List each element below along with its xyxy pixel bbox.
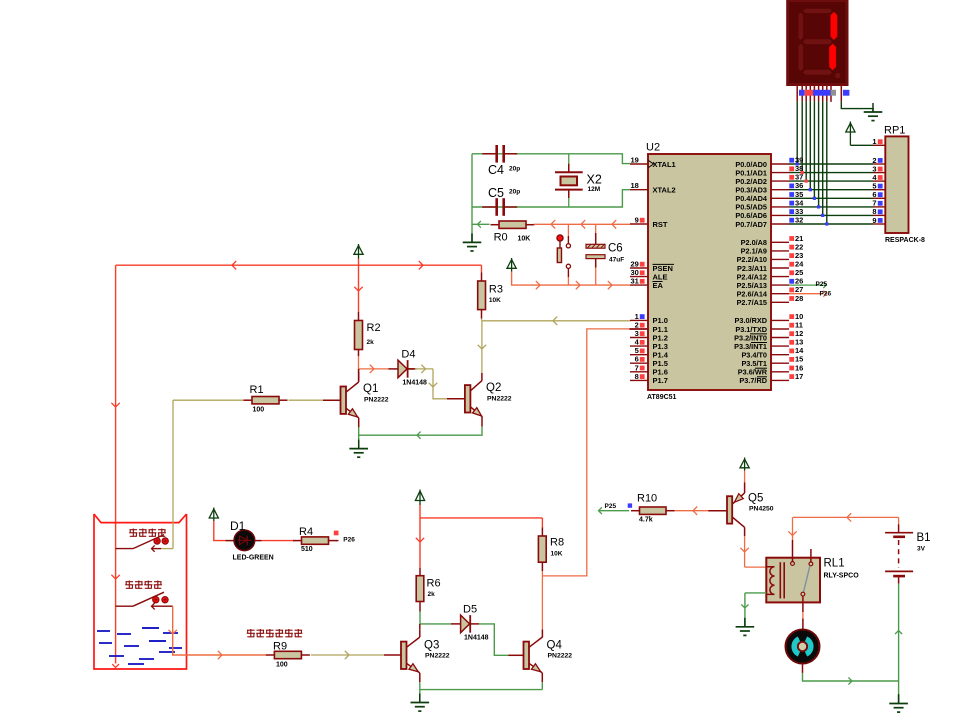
svg-text:U2: U2 [646,142,660,154]
svg-text:R9: R9 [273,641,287,653]
svg-text:R10: R10 [637,493,657,505]
svg-text:PN4250: PN4250 [749,506,774,513]
svg-text:P0.7/AD7: P0.7/AD7 [735,220,767,229]
svg-text:XTAL1: XTAL1 [653,160,676,169]
svg-text:28: 28 [795,294,803,303]
svg-text:P2.7/A15: P2.7/A15 [737,298,767,307]
svg-text:XTAL2: XTAL2 [653,186,676,195]
svg-text:B1: B1 [917,532,931,544]
svg-text:R4: R4 [299,526,313,538]
svg-text:R8: R8 [550,537,564,549]
svg-text:RST: RST [653,220,668,229]
svg-text:Q4: Q4 [547,640,563,652]
svg-text:C6: C6 [608,243,623,255]
svg-text:PN2222: PN2222 [425,653,450,660]
svg-text:Q1: Q1 [363,383,378,395]
svg-text:P25: P25 [605,503,617,510]
svg-text:17: 17 [795,372,803,381]
svg-text:9: 9 [635,216,639,225]
svg-text:10K: 10K [518,235,531,242]
svg-text:8: 8 [635,372,639,381]
svg-text:R6: R6 [427,578,441,590]
svg-text:R2: R2 [367,322,381,334]
svg-text:20p: 20p [509,189,520,196]
svg-text:RL1: RL1 [824,558,845,570]
svg-text:P3.7/RD: P3.7/RD [739,376,767,385]
svg-text:Q2: Q2 [486,382,501,394]
svg-text:R1: R1 [250,384,264,396]
svg-text:20p: 20p [509,166,520,173]
svg-text:C5: C5 [488,186,504,200]
svg-text:RP1: RP1 [884,125,905,137]
svg-text:1N4148: 1N4148 [464,634,489,641]
svg-text:R3: R3 [489,284,503,296]
svg-text:31: 31 [630,277,638,286]
svg-text:19: 19 [630,156,638,165]
svg-text:2k: 2k [428,591,436,598]
svg-text:10K: 10K [489,297,501,304]
svg-text:32: 32 [795,216,803,225]
svg-text:P1.7: P1.7 [653,376,668,385]
svg-text:100: 100 [253,407,265,414]
svg-text:D4: D4 [401,348,415,360]
svg-text:1N4148: 1N4148 [402,379,427,386]
svg-text:PN2222: PN2222 [364,397,389,404]
svg-text:10K: 10K [551,551,563,558]
svg-text:47uF: 47uF [609,257,624,264]
svg-text:C4: C4 [488,163,504,177]
svg-text:P26: P26 [343,537,355,544]
svg-text:RLY-SPCO: RLY-SPCO [824,573,860,580]
svg-text:4.7k: 4.7k [639,517,653,524]
svg-text:PN2222: PN2222 [487,396,512,403]
svg-text:510: 510 [301,546,313,553]
svg-text:1: 1 [872,137,876,146]
svg-text:LED-GREEN: LED-GREEN [233,555,274,562]
svg-text:RESPACK-8: RESPACK-8 [885,237,925,244]
svg-text:X2: X2 [587,173,602,187]
svg-text:100: 100 [276,662,288,669]
svg-text:EA: EA [653,281,664,290]
svg-text:Q3: Q3 [424,640,439,652]
svg-text:9: 9 [872,216,876,225]
svg-text:Q5: Q5 [748,493,763,505]
svg-text:2k: 2k [367,339,375,346]
svg-text:AT89C51: AT89C51 [647,394,677,401]
svg-text:P26: P26 [820,290,832,297]
svg-text:3V: 3V [917,546,926,553]
svg-text:D5: D5 [463,603,477,615]
svg-text:12M: 12M [588,186,601,193]
svg-text:D1: D1 [230,519,246,533]
svg-text:PN2222: PN2222 [548,653,573,660]
svg-text:18: 18 [630,181,638,190]
svg-text:P25: P25 [816,281,828,288]
svg-text:R0: R0 [494,232,508,244]
